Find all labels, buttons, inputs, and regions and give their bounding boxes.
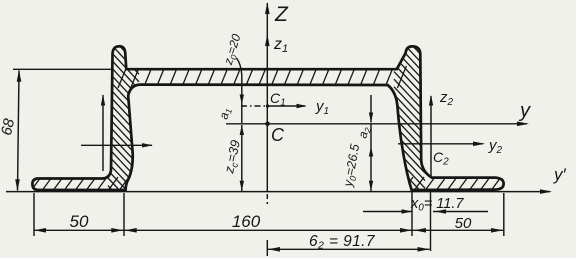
axis y' (bottom datum line) bbox=[6, 191, 550, 193]
centroid C dot bbox=[265, 122, 270, 127]
svg-text:z2: z2 bbox=[439, 89, 454, 108]
dimension column Zc (lower part) bbox=[241, 125, 243, 191]
extension line of z2 below foot bbox=[430, 191, 432, 251]
local axis horizontal on left wall bbox=[81, 144, 152, 146]
arrow local horizontal bbox=[142, 143, 153, 147]
extension line below Z axis for b2 bbox=[266, 240, 268, 256]
svg-text:y′: y′ bbox=[553, 165, 567, 184]
arrow local vertical bbox=[101, 95, 105, 106]
arrow z1 bbox=[265, 34, 270, 46]
arrow y-prime bbox=[540, 189, 552, 194]
hat-section profile outline bbox=[32, 46, 503, 190]
arrow Zc up at y bbox=[240, 125, 244, 135]
dimension column a2 (upper part) bbox=[370, 95, 372, 123]
axis z2 (through C2) bbox=[430, 96, 432, 178]
arrow y0 down at y-prime bbox=[369, 181, 373, 191]
svg-text:C2: C2 bbox=[433, 149, 449, 168]
arrow y0 up at y2 bbox=[369, 147, 373, 157]
dimension row b2=91.7 bbox=[268, 248, 430, 250]
svg-text:C1: C1 bbox=[270, 90, 286, 109]
hatching bbox=[30, 26, 512, 226]
hatching of top flange bbox=[118, 66, 406, 88]
arrow 50L right bbox=[111, 228, 123, 233]
svg-text:y0=26.5: y0=26.5 bbox=[341, 143, 364, 189]
hatching of right wall bbox=[394, 26, 425, 226]
arrow z0/a1 down at y1 bbox=[240, 95, 244, 105]
arrow 50R right bbox=[491, 228, 503, 233]
arrow x0 right bbox=[435, 209, 446, 213]
extension line x=504 bbox=[503, 193, 505, 236]
arrow z2 bbox=[429, 95, 433, 106]
svg-text:y: y bbox=[518, 100, 531, 122]
svg-text:160: 160 bbox=[232, 212, 261, 231]
axis Z dashed continuation below y' bbox=[266, 194, 268, 204]
arrow b2 right bbox=[418, 247, 430, 252]
arrow 68 top bbox=[17, 70, 22, 82]
arrow 50L left bbox=[34, 228, 46, 233]
axis y2 (through C2) bbox=[398, 143, 483, 145]
svg-text:y2: y2 bbox=[488, 137, 503, 156]
arrow Zc down at y-prime bbox=[240, 181, 244, 191]
hatching of left foot flange bbox=[30, 177, 129, 192]
hatching of right foot flange bbox=[402, 177, 512, 192]
svg-text:50: 50 bbox=[455, 215, 472, 232]
hatching of left wall bbox=[108, 26, 139, 226]
svg-text:y1: y1 bbox=[315, 98, 329, 117]
axis y (through centroid C) bbox=[226, 123, 527, 125]
dimension row 50/160/50 bbox=[34, 229, 503, 231]
dimension column y0 (lower part) bbox=[370, 125, 372, 192]
arrow x0 left bbox=[402, 209, 413, 213]
svg-text:62 = 91.7: 62 = 91.7 bbox=[309, 233, 376, 252]
arrow 160 right bbox=[400, 228, 412, 233]
arrow 160 left bbox=[125, 228, 137, 233]
dimension line x0 right segment bbox=[433, 211, 488, 213]
arrow Z top bbox=[265, 2, 270, 14]
dimension column a1 / z0 (upper part) bbox=[241, 75, 243, 123]
svg-text:z0=20: z0=20 bbox=[221, 32, 245, 68]
svg-text:68: 68 bbox=[0, 116, 18, 136]
axis Z (vertical through C) bbox=[266, 3, 268, 192]
svg-text:50: 50 bbox=[70, 212, 89, 231]
svg-text:Z: Z bbox=[274, 3, 289, 26]
arrow 68 bottom bbox=[15, 179, 20, 191]
extension line x=124 bbox=[123, 193, 125, 236]
arrow b2 left bbox=[268, 247, 280, 252]
arrow y2 bbox=[473, 142, 485, 147]
leader of z0=20 bbox=[237, 58, 242, 75]
arrow a2 down at y bbox=[369, 113, 373, 123]
axis y1 dash-dot left of C1 bbox=[241, 105, 266, 107]
extension line x=412 bbox=[411, 192, 413, 236]
svg-text:x0= 11.7: x0= 11.7 bbox=[410, 196, 464, 214]
svg-text:C: C bbox=[271, 125, 285, 145]
arrow y1 bbox=[297, 104, 308, 108]
extension line top left (to flange top face) bbox=[13, 68, 112, 70]
local axis vertical on left wall bbox=[102, 95, 104, 171]
dimension line 68 bbox=[18, 71, 20, 191]
arrow y bbox=[517, 122, 529, 127]
dimension line x0 left segment bbox=[363, 211, 413, 213]
svg-text:z1: z1 bbox=[273, 36, 288, 55]
axis y1 (through C1) bbox=[268, 105, 306, 107]
node C1 dot bbox=[266, 104, 269, 107]
arrow 50R left bbox=[414, 228, 426, 233]
svg-text:a1: a1 bbox=[216, 106, 234, 121]
extension line x=34 bbox=[33, 193, 35, 236]
